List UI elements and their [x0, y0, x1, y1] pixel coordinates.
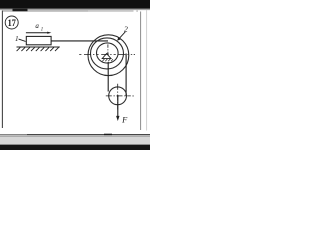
movable pulley center dot — [117, 95, 119, 97]
bottom black bar — [0, 145, 150, 150]
ground line — [17, 46, 60, 48]
pulley 2 horizontal center line — [79, 53, 132, 55]
svg-text:1: 1 — [15, 34, 19, 43]
pulley 2 outer rim circle — [88, 35, 129, 76]
wire rope right side down from pulley 2 — [125, 54, 127, 97]
axle support hatching — [102, 59, 113, 61]
axle support triangle — [102, 54, 111, 59]
bottom gray band — [0, 135, 150, 144]
pulley 2 middle step circle — [91, 38, 124, 69]
svg-text:a: a — [35, 22, 39, 30]
force F arrow — [116, 96, 119, 121]
bottom scan band dark line — [0, 134, 150, 135]
frame right border — [140, 12, 142, 131]
frame top border dark left segment — [13, 9, 28, 12]
leader from label 1 to block — [19, 39, 26, 41]
faint page edge line right — [146, 10, 148, 131]
frame top border — [3, 10, 89, 12]
problem number badge 17 — [5, 16, 18, 29]
bottom gray band top stripe — [0, 135, 150, 138]
movable pulley circle — [109, 87, 127, 105]
wire rope from block to pulley 2 — [51, 40, 108, 42]
pulley 2 center dot — [107, 53, 109, 55]
acceleration arrow a1 — [26, 32, 52, 34]
movable pulley horizontal center line — [106, 95, 131, 97]
wire rope left side from pulley 2 axle to pulley 3 — [107, 62, 109, 92]
pulley 2 vertical center line stub — [107, 44, 109, 53]
top black scan bar — [0, 0, 150, 8]
svg-text:1: 1 — [41, 27, 43, 32]
svg-text:F: F — [121, 115, 128, 124]
ground hatching — [17, 47, 59, 51]
leader arrow from label 2 to pulley rim — [117, 32, 125, 41]
frame left border — [1, 11, 3, 129]
block 1 (body on table) — [26, 36, 51, 44]
movable pulley vertical center line — [117, 84, 119, 110]
svg-text:17: 17 — [8, 18, 16, 29]
pulley 2 inner step circle — [97, 43, 119, 63]
